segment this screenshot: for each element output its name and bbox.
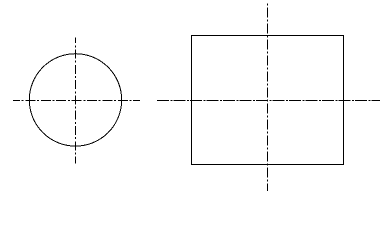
circle (front view): [29, 54, 121, 146]
rectangle (side view): [192, 36, 344, 165]
horizontal centerline of circle: [13, 100, 140, 102]
horizontal centerline of rectangle: [157, 100, 380, 102]
vertical centerline of circle: [75, 38, 77, 164]
vertical centerline of rectangle: [267, 3, 269, 190]
